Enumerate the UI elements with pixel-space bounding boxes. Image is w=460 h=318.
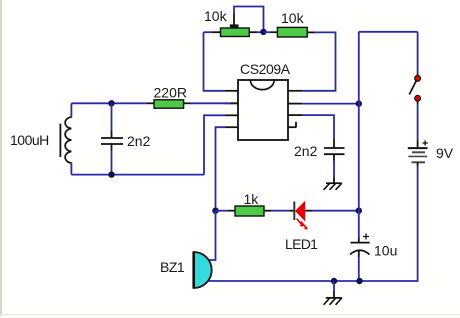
svg-text:2n2: 2n2	[127, 133, 151, 149]
node E junction dot (LED right / V+ rail)	[356, 208, 362, 214]
svg-text:LED1: LED1	[285, 236, 318, 252]
svg-text:10k: 10k	[204, 8, 228, 24]
potentiometer VR1 10k	[221, 24, 250, 36]
wire: tank left vertical bottom	[70, 163, 72, 175]
switch SW1	[409, 76, 420, 102]
wire: IC pin 7 to V+ rail	[302, 103, 359, 105]
wire: cap C1 top lead	[111, 103, 113, 137]
ground (bottom rail)	[324, 298, 342, 305]
resistor R2 220R	[154, 100, 184, 108]
wire: R1 right to IC pin 8 feedback	[302, 32, 336, 90]
wire: left vertical down to IC pin 1	[204, 32, 226, 91]
node G junction dot (ground tap on bottom rail)	[331, 278, 337, 284]
svg-text:2n2: 2n2	[294, 143, 318, 159]
wire: node D to R3	[216, 210, 236, 212]
capacitor C2 2n2	[324, 148, 345, 154]
wire: R3 right to LED1 cathode	[264, 210, 294, 212]
wire: node A to R1	[264, 31, 278, 33]
wire: tank bottom up to IC pin 3	[204, 115, 225, 174]
svg-text:100uH: 100uH	[10, 132, 49, 148]
wire: bottom ground stub	[333, 281, 335, 298]
ground (below C2)	[324, 183, 342, 190]
node H junction dot (C3 bottom on bottom rail)	[356, 278, 362, 284]
buzzer BZ1	[194, 252, 212, 289]
inductor L1 100uH	[60, 117, 71, 163]
wire: IC pin 6 to C2	[302, 115, 334, 138]
svg-text:BZ1: BZ1	[160, 259, 185, 275]
wire: R2 left lead to tank top rail	[71, 102, 154, 104]
wire: cap C1 bottom lead	[111, 144, 113, 175]
node F junction dot (V+ rail)	[356, 100, 362, 106]
wire: top supply rail	[359, 31, 418, 33]
wire: node D down to buzzer	[208, 211, 216, 260]
wire: pot wiper loop to junction node A	[234, 7, 264, 32]
node C junction dot (tank bottom)	[108, 171, 114, 177]
wire: pot right lead to node A	[249, 31, 263, 33]
LED1	[294, 201, 307, 230]
wire: R2 right lead to IC pin 2	[184, 102, 238, 104]
wire: switch to battery	[417, 101, 419, 148]
node B junction dot (tank top)	[108, 100, 114, 106]
svg-text:9V: 9V	[436, 145, 454, 161]
node D junction dot (1k left)	[212, 208, 218, 214]
wire: C3 bottom lead	[358, 251, 360, 282]
wire: C2 bottom to ground	[333, 154, 335, 183]
wire: pot left lead	[204, 31, 221, 33]
svg-text:CS209A: CS209A	[240, 61, 291, 77]
capacitor C3 10u (electrolytic)	[350, 234, 370, 255]
resistor R1 10k	[277, 27, 307, 37]
wire: right rail to switch	[417, 32, 419, 76]
pin stubs of U1 right side	[288, 91, 302, 127]
svg-text:10u: 10u	[374, 243, 397, 259]
svg-text:10k: 10k	[281, 10, 305, 26]
wire: tank left vertical top	[70, 103, 72, 117]
wire: V+ rail vertical	[358, 32, 360, 243]
wire: IC pin 4 down to node D	[216, 127, 226, 211]
pin stubs of U1 left side	[225, 91, 238, 127]
op-amp IC U1 CS209A body	[238, 80, 288, 140]
svg-text:1k: 1k	[244, 191, 260, 207]
capacitor C1 2n2	[101, 138, 123, 144]
resistor R3 1k	[235, 206, 264, 216]
wire: battery negative down and bottom rail	[209, 162, 418, 281]
battery BT1 9V	[408, 140, 428, 162]
wire: tank bottom rail	[71, 174, 204, 176]
node A junction dot	[260, 29, 266, 35]
svg-text:220R: 220R	[154, 85, 187, 101]
wire: LED1 anode to node E	[305, 210, 359, 212]
